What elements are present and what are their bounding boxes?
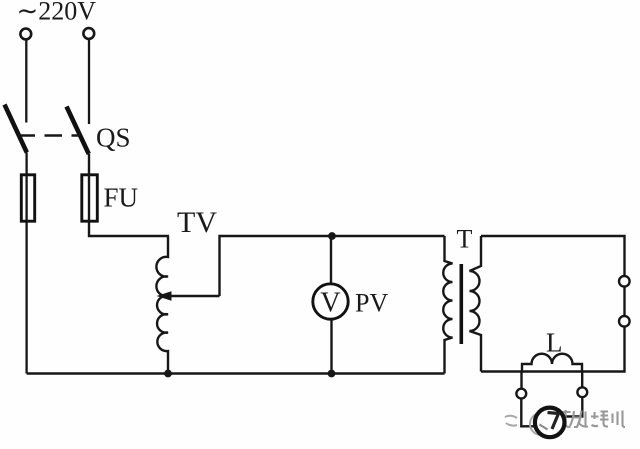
- lamp EL: [535, 408, 565, 438]
- wire secondary loop: [481, 236, 625, 372]
- wire: [25, 153, 27, 374]
- wire: [330, 236, 332, 284]
- wire: [521, 399, 535, 427]
- terminal: [619, 276, 630, 287]
- junction: [164, 370, 172, 378]
- bottom bus wire: [27, 372, 445, 374]
- wire: [89, 154, 169, 236]
- junction: [328, 232, 336, 240]
- switch QS pole 1 blade: [5, 105, 27, 153]
- terminal: [619, 316, 630, 327]
- autotransformer TV winding: [156, 236, 168, 374]
- switch QS pole 2 blade: [67, 107, 89, 155]
- inductor L: [522, 354, 582, 372]
- power terminal N: [83, 28, 94, 39]
- TV wiper arrow: [157, 291, 220, 301]
- wire: [566, 397, 582, 416]
- svg-text:V: V: [320, 288, 340, 319]
- terminal: [577, 387, 587, 397]
- svg-text:T: T: [457, 225, 473, 254]
- junction: [328, 370, 336, 378]
- watermark logo: [505, 413, 552, 435]
- wire: [25, 40, 27, 123]
- power terminal L: [20, 29, 31, 40]
- terminal: [516, 389, 526, 399]
- fuse FU1: [21, 175, 34, 221]
- svg-text:QS: QS: [96, 123, 131, 153]
- switch QS linkage dashed: [18, 134, 81, 136]
- transformer T primary winding: [443, 236, 452, 374]
- transformer T secondary winding: [470, 236, 482, 372]
- wire: [220, 236, 445, 296]
- watermark text: [552, 410, 625, 427]
- wire: [330, 319, 332, 373]
- svg-text:FU: FU: [104, 183, 139, 213]
- wire: [88, 40, 90, 125]
- fuse FU2: [82, 175, 98, 221]
- svg-text:∼220V: ∼220V: [17, 0, 97, 26]
- voltmeter PV: [313, 284, 348, 319]
- svg-text:TV: TV: [177, 206, 217, 239]
- wire: [581, 372, 583, 388]
- transformer core: [459, 264, 463, 344]
- svg-text:L: L: [546, 328, 563, 358]
- wire: [520, 372, 522, 389]
- svg-text:PV: PV: [355, 289, 388, 318]
